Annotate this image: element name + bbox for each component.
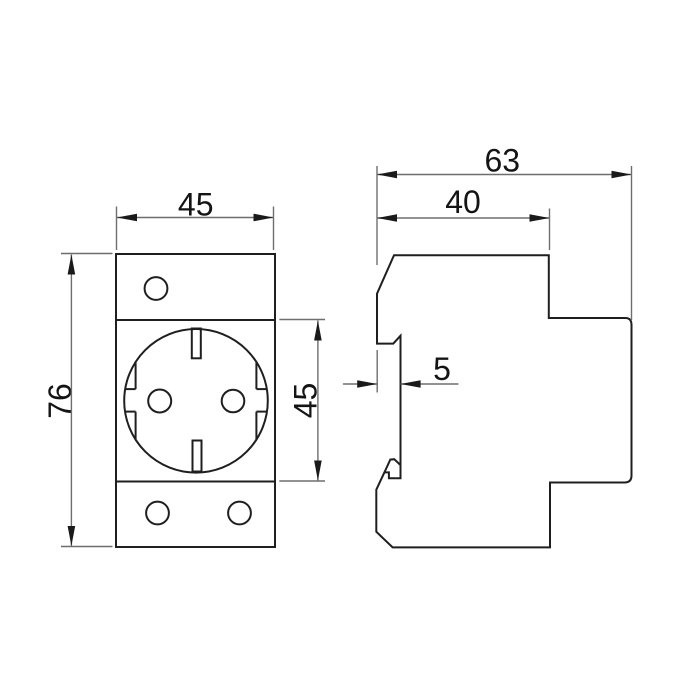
dim 45 right: bottom arrow <box>314 461 322 481</box>
dim 45 top: left extension line <box>116 207 118 251</box>
right earth-clip notch lower line <box>256 411 267 413</box>
dim 45 right: bottom extension line <box>279 480 325 482</box>
dim 76 left: top arrow <box>68 255 76 275</box>
top earth slot <box>192 329 201 359</box>
dim 5: left arrow pointing right <box>357 380 377 388</box>
left chord flat upper segment <box>135 362 137 390</box>
front view top panel divider line <box>116 319 275 321</box>
bottom right mounting hole <box>228 502 251 525</box>
dim 76 left: bottom extension line <box>61 546 113 548</box>
front view outer body rectangle <box>116 254 275 547</box>
dim 40: left arrow <box>377 214 397 222</box>
dim 40: right arrow <box>530 214 550 222</box>
DIN rail release clip arrow <box>385 459 401 472</box>
side view profile outline <box>376 255 631 547</box>
svg-text:5: 5 <box>433 351 451 387</box>
dim 45 top: left arrow <box>117 214 137 222</box>
dim 76 left: bottom arrow <box>68 526 76 546</box>
right earth-clip notch upper line <box>256 388 267 390</box>
svg-text:63: 63 <box>485 143 521 179</box>
right chord flat upper segment <box>255 362 257 390</box>
dim 63: right arrow <box>612 171 632 179</box>
svg-text:40: 40 <box>445 184 481 220</box>
dim 63: left arrow <box>377 171 397 179</box>
svg-text:76: 76 <box>42 383 78 419</box>
dim 63: right extension line <box>631 166 633 320</box>
dim 45 top: dimension line <box>117 217 274 219</box>
left earth-clip notch upper line <box>125 388 136 390</box>
dim 63: left extension line <box>376 166 378 265</box>
front view bottom panel divider line <box>116 481 275 483</box>
dim 45 top: right extension line <box>273 207 275 251</box>
right pin hole N <box>222 390 245 413</box>
dim 40: dimension line <box>377 217 550 219</box>
bottom earth slot <box>193 441 202 472</box>
dim 5: right arrow pointing left <box>401 380 421 388</box>
left chord flat lower segment <box>135 412 137 440</box>
dim 63: dimension line <box>377 174 632 176</box>
dim 5: left leader line <box>343 383 377 385</box>
left earth-clip notch lower line <box>125 411 136 413</box>
dim 5: right leader line <box>401 383 459 385</box>
top mounting hole <box>145 277 168 300</box>
dim 40: right extension line <box>549 209 551 251</box>
dim 45 right: top arrow <box>314 321 322 341</box>
socket recess circle <box>124 329 268 473</box>
left pin hole L <box>148 390 171 413</box>
bottom left mounting hole <box>146 502 169 525</box>
dim 45 right: dimension line <box>317 321 319 481</box>
dim 76 left: dimension line <box>70 255 72 547</box>
dim 76 left: top extension line <box>61 253 113 255</box>
dim 45 top: right arrow <box>254 214 274 222</box>
dim 45 right: top extension line <box>279 319 325 321</box>
dim 5: extension line <box>376 350 378 393</box>
right chord flat lower segment <box>255 412 257 440</box>
